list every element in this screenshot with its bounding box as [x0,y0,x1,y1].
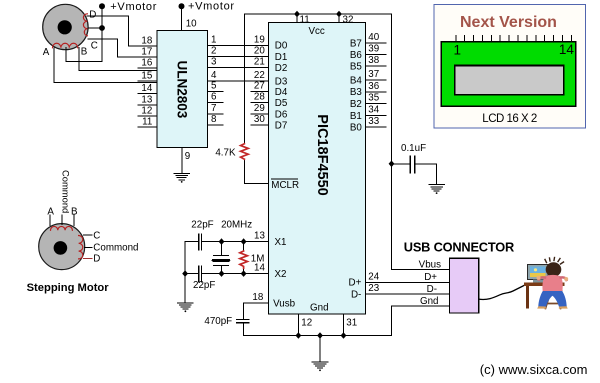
+Vmotor terminal dot (ULN pin 10) [179,3,185,9]
svg-text:17: 17 [141,46,152,57]
svg-text:21: 21 [254,57,265,68]
wire D- PIC23 to USB [366,293,450,295]
wire bus to ground [319,336,321,362]
+Vmotor terminal dot (motor) [99,3,105,9]
svg-text:28: 28 [254,92,265,103]
PIC pin 34 stub [366,114,386,116]
svg-text:36: 36 [368,81,379,92]
PIC left pin numbers [254,34,265,125]
LCD pin ticks [456,35,572,41]
svg-text:1: 1 [454,43,462,58]
ground (ULN pin 9) [174,174,190,183]
motor M1 bottom coil [53,43,78,48]
svg-text:B5: B5 [350,61,363,72]
svg-text:D1: D1 [275,52,288,63]
svg-text:A: A [47,206,54,217]
svg-text:23: 23 [368,283,379,294]
svg-text:27: 27 [254,81,265,92]
svg-text:D4: D4 [275,87,288,98]
svg-text:4: 4 [211,70,217,81]
svg-text:18: 18 [141,35,152,46]
junction X2 row 1M [241,270,247,277]
svg-text:D+: D+ [424,272,437,283]
stepping motor M2 body (legend) [39,224,85,270]
wire C to ULN pin 17 [88,39,157,57]
svg-text:20: 20 [254,46,265,57]
LCD module green body [441,42,575,107]
wire rail to C4 [392,163,410,165]
svg-text:X1: X1 [275,237,287,248]
svg-text:31: 31 [346,317,357,328]
wire motor common [66,9,102,62]
svg-text:33: 33 [368,116,379,127]
junction X2 row crystal [219,270,225,277]
resistor R1 4.7K [243,14,245,184]
B7-B0 labels [350,39,363,134]
svg-text:470pF: 470pF [204,316,232,327]
svg-text:MCLR: MCLR [271,180,299,191]
computer clipart [524,258,568,309]
svg-text:Vcc: Vcc [309,26,325,37]
ULN pin 5 stub [207,91,223,93]
capacitor C1 22pF plates [199,234,202,250]
svg-text:D: D [93,254,100,265]
PIC18F4550 U1 body [269,22,366,314]
svg-text:14: 14 [141,83,152,94]
PIC pin 33 stub [366,126,386,128]
svg-text:13: 13 [141,94,152,105]
svg-text:40: 40 [368,32,379,43]
ground (C4) [429,185,445,194]
svg-text:38: 38 [368,55,379,66]
wire PIC pin 11 to rail [296,14,298,22]
motor M2 tick common [85,247,93,249]
ULN pin 6 stub [207,102,223,104]
svg-text:15: 15 [141,70,152,81]
wire D to ULN pin 18 [87,16,157,46]
motor M2 tap tick common [61,215,63,225]
svg-text:D7: D7 [275,121,288,132]
svg-text:0.1uF: 0.1uF [401,143,426,154]
svg-text:1M: 1M [251,254,265,265]
svg-text:20MHz: 20MHz [221,220,252,231]
ground (crystal) [178,303,194,312]
junction bus pin31 [341,332,347,339]
svg-text:D3: D3 [275,76,288,87]
ULN pin 15 stub [138,80,157,82]
svg-text:D-: D- [351,289,361,300]
PIC right pin numbers [368,32,379,127]
svg-text:6: 6 [211,92,217,103]
ULN pin 17 stub [138,56,157,58]
svg-text:ULN2803: ULN2803 [175,61,190,119]
PIC pin 27 stub [251,91,269,93]
ULN pin 18 stub [138,45,157,47]
wire B to ULN pin 16 [79,48,157,71]
junction rail pin11 [294,11,300,18]
svg-text:19: 19 [254,34,265,45]
svg-text:D2: D2 [275,63,288,74]
ULN pin 11 stub [138,126,157,128]
svg-text:A: A [43,47,50,58]
svg-text:Next Version: Next Version [460,14,557,31]
svg-text:D+: D+ [349,278,362,289]
PIC pin 35 stub [366,103,386,105]
PIC pin 30 stub [251,124,269,126]
junction bus pin12 [296,332,302,339]
USB cable [479,284,527,299]
svg-text:Commond: Commond [93,242,138,253]
svg-text:22pF: 22pF [191,220,213,231]
svg-text:22pF: 22pF [193,280,215,291]
svg-text:Gnd: Gnd [310,302,329,313]
wire X2 row left of C2 [185,273,199,275]
PIC pin 28 stub [251,102,269,104]
wire X2 row right [202,273,269,275]
PIC pin 37 stub [366,79,386,81]
ULN pin 9 wire [181,148,183,173]
LCD screen [455,66,564,95]
crystal Y1 [214,242,229,274]
svg-text:B1: B1 [350,111,362,122]
svg-text:B4: B4 [350,75,363,86]
+5V top rail wire [244,13,391,15]
motor M2 tick C [83,234,92,236]
capacitor C2 22pF plates [199,266,202,282]
svg-text:Vbus: Vbus [419,260,441,271]
svg-text:Stepping Motor: Stepping Motor [27,282,110,294]
svg-text:Vusb: Vusb [273,299,296,310]
svg-text:14: 14 [559,42,575,57]
junction rail pin32 [336,11,342,18]
motor M1 rotor dot [58,20,72,34]
PIC pin 39 stub [366,54,386,56]
junction X2 row left rail [182,270,188,277]
PIC pin 38 stub [366,65,386,67]
wire PIC pin 31 to bus [343,314,345,336]
svg-text:18: 18 [252,292,263,303]
stepping motor M1 body [43,4,88,49]
svg-text:B0: B0 [350,123,363,134]
junction X1 row crystal [219,238,225,245]
svg-text:4.7K: 4.7K [215,148,236,159]
wire X1 row left of C1 [185,241,199,243]
wire D+ PIC24 to USB [366,281,450,283]
junction X1 row 1M [241,238,247,245]
wire ULN1 to PIC19 (D0) [207,44,268,46]
motor M2 top coil [51,226,73,230]
svg-text:B3: B3 [350,87,363,98]
ULN2803 U2 body [157,30,207,147]
svg-text:D: D [89,10,96,21]
motor M1 right coil [83,14,87,36]
svg-text:D0: D0 [275,41,288,52]
svg-text:B2: B2 [350,99,362,110]
motor M2 tap tick A [49,215,51,226]
svg-text:LCD 16 X 2: LCD 16 X 2 [482,113,537,125]
svg-text:13: 13 [254,231,265,242]
ULN pin 10 wire [181,9,183,30]
ULN pin 14 stub [138,93,157,95]
svg-text:D-: D- [427,284,437,295]
USB connector J1 body [450,258,479,313]
svg-text:B7: B7 [350,39,362,50]
svg-text:USB CONNECTOR: USB CONNECTOR [404,239,514,254]
svg-text:37: 37 [368,69,379,80]
svg-text:5: 5 [211,81,217,92]
PIC pin 40 stub [366,42,386,44]
junction rail 0.1uF [389,161,395,168]
D0-D7 labels [275,41,288,132]
ULN pin 8 stub [207,124,223,126]
svg-text:16: 16 [141,57,152,68]
svg-text:+Vmotor: +Vmotor [188,1,235,13]
svg-text:PIC18F4550: PIC18F4550 [314,114,330,195]
svg-text:12: 12 [301,317,312,328]
ground (PIC) [312,362,328,371]
capacitor C3 470pF plates [237,319,250,322]
svg-text:34: 34 [368,104,379,115]
svg-text:B6: B6 [350,50,363,61]
motor M2 rotor dot [54,241,68,255]
svg-text:+Vmotor: +Vmotor [110,1,157,13]
svg-text:24: 24 [368,271,379,282]
ULN left pin numbers [141,35,152,127]
ULN pin 12 stub [138,115,157,117]
svg-text:C: C [91,41,98,52]
svg-text:D6: D6 [275,109,288,120]
svg-text:9: 9 [185,151,190,162]
wire C4 to ground [415,164,436,184]
svg-text:3: 3 [211,57,217,68]
wire ULN2 to PIC20 (D1) [207,56,268,58]
junction motor common [99,25,105,31]
svg-text:7: 7 [211,103,216,114]
ULN pin 7 stub [207,113,223,115]
svg-text:X2: X2 [275,269,287,280]
motor M2 right coil [79,236,83,259]
svg-text:35: 35 [368,93,379,104]
capacitor C4 0.1uF plates [410,156,415,173]
svg-text:12: 12 [141,105,152,116]
wire X1 row right [202,241,269,243]
svg-text:Gnd: Gnd [420,296,439,307]
wire A to ULN pin 15 [54,48,157,83]
svg-text:39: 39 [368,44,379,55]
svg-text:30: 30 [254,114,265,125]
svg-text:29: 29 [254,103,265,114]
ULN right pin numbers [211,34,217,125]
wire ULN4 to PIC22 (D3) [207,80,268,82]
ULN pin 13 stub [138,104,157,106]
wire Vbus row [392,269,450,271]
motor M2 tap tick B [73,215,75,226]
wire Gnd riser to USB [391,306,449,336]
svg-text:8: 8 [211,114,217,125]
svg-text:D5: D5 [275,98,288,109]
svg-text:1: 1 [211,34,216,45]
PIC pin 29 stub [251,113,269,115]
wire PIC pin 12 to bus [297,314,299,336]
wire Vusb to C3 [243,303,268,319]
ground bus wire [243,335,391,337]
wire PIC pin 32 to rail [338,14,340,22]
wire C3 to ground bus [242,323,244,336]
wire ULN3 to PIC21 (D2) [207,67,268,69]
svg-text:11: 11 [142,116,152,127]
PIC pin 36 stub [366,91,386,93]
motor M2 tick D [83,257,92,259]
+5V right rail wire [391,14,393,270]
junction bus ground [317,332,323,339]
svg-text:22: 22 [254,70,265,81]
svg-text:2: 2 [211,46,216,57]
svg-text:C: C [93,231,100,242]
svg-text:B: B [81,47,88,58]
wire R1 to MCLR [244,183,268,185]
wire crystal left rail [184,242,186,303]
LCD panel outer box [434,5,586,128]
svg-text:10: 10 [186,19,197,30]
svg-text:(c) www.sixca.com: (c) www.sixca.com [480,362,588,377]
resistor R2 1M [243,242,245,274]
ULN pin 16 stub [138,67,157,69]
svg-text:Commond: Commond [61,170,72,213]
